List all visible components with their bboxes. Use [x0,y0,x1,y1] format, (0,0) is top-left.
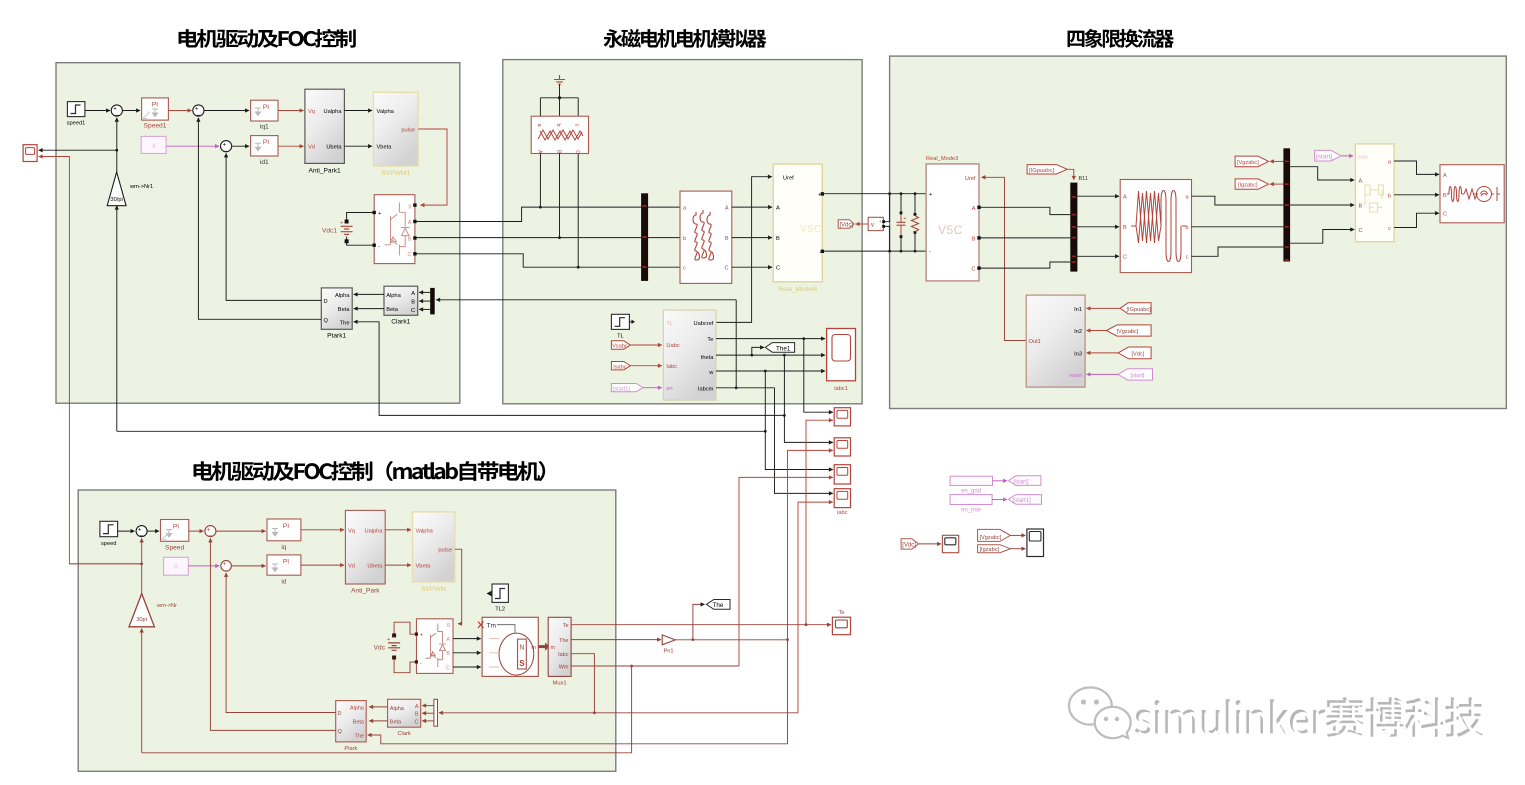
svg-text:B: B [446,651,450,657]
node Te branch [802,337,805,340]
wire Vsabc to motor Uabc [630,344,662,346]
svg-text:+: + [223,562,227,568]
node theta branch [750,354,753,357]
wire bar to inductor a [648,206,680,208]
svg-text:PI: PI [263,104,269,111]
svg-text:speed: speed [101,541,117,547]
mux demux1 (bus selector bar) [430,288,435,315]
wire Clark1 Beta to Plark1 Beta [354,308,384,310]
svg-text:30/pi: 30/pi [110,197,122,203]
capacitor DC link [897,192,907,252]
from tag start1 [611,384,643,393]
wire region4 w to scope s3 (red) [739,477,833,666]
PI controller Speed [161,520,189,552]
grid source block [1440,165,1504,223]
svg-text:Alpha: Alpha [335,293,350,299]
subsystem Anti_Park region4 [345,510,385,594]
goto tag start1 [1008,495,1041,505]
svg-text:C: C [446,665,450,671]
svg-text:[start]: [start] [1131,373,1145,379]
wire Plark D to sum6 feedback [226,573,336,713]
svg-text:PI: PI [283,523,289,530]
wire Mux1 Iabc down [571,654,594,713]
svg-text:+: + [138,527,142,533]
svg-text:Vd: Vd [348,564,355,570]
svg-text:A: A [408,220,412,226]
slider en_rise [950,495,992,514]
resistor DC link [912,192,919,252]
svg-text:Q: Q [324,318,329,324]
wire bar2 to Vgzabc [1270,160,1283,162]
step source speed1 [67,102,86,127]
goto tag The1 [765,343,794,353]
wire ground to source block [540,84,578,116]
svg-text:-: - [420,661,422,667]
svg-text:b: b [683,236,686,242]
wire Clark1 Alpha to Plark1 Alpha [354,293,384,295]
svg-text:A: A [411,291,415,297]
svg-text:Pn1: Pn1 [663,649,673,655]
svg-text:[start1]: [start1] [613,386,631,392]
wire VSC A to bar B11 [979,207,1070,214]
svg-text:The: The [340,320,350,326]
subsystem Out1 measurement [1026,295,1085,387]
sum junction sum4 [136,526,147,540]
svg-text:SVPWM1: SVPWM1 [381,170,410,177]
svg-text:Uref: Uref [783,176,794,182]
svg-text:Ualpha: Ualpha [323,109,342,115]
wire inductor B to VSC B [732,237,772,239]
svg-text:Anti_Park: Anti_Park [351,588,380,595]
wire Vdc2 to scope vdc [919,543,941,545]
wire w down to node w feedback [764,371,766,431]
wire start3 to breaker con [1341,155,1353,157]
battery Vdc1 [322,213,373,246]
wire theta4 down to The feedback line [368,640,788,744]
wire pulse to IGBT gate g (red) [418,129,447,205]
wire Plark1 D to sum3 feedback [226,153,321,300]
wire Mux1 The to Pn1 [571,639,661,641]
PMSM motor block region4 [478,617,538,676]
svg-text:con: con [1359,155,1368,161]
wire start2 to reset [1087,373,1119,375]
svg-text:+: + [420,633,423,639]
svg-text:[Igzabc]: [Igzabc] [980,547,1000,553]
wire breaker a to grid A [1394,161,1439,174]
svg-text:C: C [1359,228,1363,234]
wire en_grid to start tag [993,480,1008,482]
svg-text:A: A [446,637,450,643]
svg-text:PI: PI [283,559,289,566]
node Iabc feedback [593,711,596,714]
svg-text:pulse: pulse [401,128,415,134]
svg-text:[Vgzabc]: [Vgzabc] [980,535,1002,541]
svg-text:Real_Mode3: Real_Mode3 [926,156,958,162]
svg-text:[start]: [start] [1014,479,1029,485]
svg-text:speed1: speed1 [67,121,86,127]
goto tag start3 [1315,150,1342,161]
watermark text simulinker [1135,697,1486,740]
wire bar B11 to transformer A [1077,195,1119,197]
svg-text:A: A [415,704,419,710]
demux bar region4 [434,699,438,726]
voltage measurement block v1 [868,217,885,230]
PI controller iq [267,519,301,551]
svg-text:Te: Te [707,337,713,343]
svg-text:Ualpha: Ualpha [364,528,383,534]
wire motor m to Mux1 (thick) [538,645,546,648]
wire Uabcref up to VSC Uref [716,177,772,323]
wire region4 theta to scope s2 (red) [788,450,833,639]
from tag Vgzabc2 [978,529,1011,541]
svg-text:Te: Te [563,623,569,629]
wire Vgzabc3 to In2 [1087,330,1107,332]
wire Ualpha to SVPWM Valpha [385,529,411,531]
wire Pn1 branch up to The tag [693,604,705,639]
sum junction sum3 [221,141,232,155]
svg-text:Wm: Wm [559,664,569,670]
wire Clark Beta to Plark Beta [369,720,387,722]
from tag IGpuabc2 [1120,303,1151,314]
wire bridge B to motor B [453,652,481,654]
wire sum4 to PI Speed [147,530,159,532]
wire Mux1 Wm right [571,665,739,667]
subsystem Mux1 [548,617,571,686]
svg-text:Vq: Vq [308,109,315,115]
wire Igzabc2 to scope vg [1010,548,1025,550]
svg-text:Clark1: Clark1 [391,319,410,326]
svg-text:[start]: [start] [1316,153,1332,160]
from tag Vsabc [611,341,630,350]
svg-text:Out1: Out1 [1029,339,1041,345]
wire Ualpha to SVPWM1 Valpha [344,110,372,112]
svg-text:-: - [929,249,931,255]
wire Iabc feedback to demux4 [439,712,594,714]
wire Ubeta to SVPWM Vbeta [385,564,411,566]
wire IGBT C output to region2 [417,254,641,267]
wire Iabcm up to region1 feed [735,300,737,388]
svg-text:B: B [415,712,419,718]
svg-text:Valpha: Valpha [377,109,395,115]
svg-text:Uabc: Uabc [666,343,679,349]
scope s2 [834,438,850,456]
svg-text:Q: Q [338,729,343,735]
svg-text:0: 0 [174,565,177,571]
svg-text:Alpha: Alpha [390,706,405,712]
svg-text:[Vdc]: [Vdc] [902,543,916,549]
svg-text:b: b [1388,193,1391,199]
node Wm branch [630,665,633,668]
PI controller id1 [251,136,278,166]
goto tag IGpuabc [1027,165,1067,174]
wire id1 to Anti_Park1 Vd (red) [278,145,304,147]
wire Vdc3 to In3 [1087,352,1119,354]
wire Plark Q to sum5 feedback [210,538,335,730]
node ground bus [558,96,561,99]
subsystem PMSM simulator model [663,310,716,400]
wire VSC C to bar B11 [979,262,1070,268]
wire VSC + output rail to region3 [824,193,926,195]
svg-text:C: C [1443,212,1447,218]
wire VSC - output rail to region3 [824,250,926,252]
goto tag Igzabc [1235,179,1268,189]
wire IGpuabc tag to bar [1066,169,1074,180]
wire motor w to scope iabc1 [716,370,825,372]
node bus c [577,266,580,269]
mux bar2 grid measurement [1283,148,1290,261]
svg-text:Iabcm: Iabcm [698,387,714,393]
wire breaker c to grid C [1394,213,1439,227]
wire bar2 to breaker A [1290,167,1354,180]
wire bar B11 to transformer B [1077,226,1119,228]
PI controller id [267,555,301,586]
node Iabcm up branch [735,386,738,389]
svg-text:TL: TL [617,334,624,340]
wire Mux1 Te to scope Te (red) [571,624,831,626]
node w-gain junction [764,430,767,433]
sum junction sum1 [111,105,122,119]
svg-text:[IGpuabc]: [IGpuabc] [1029,168,1055,174]
svg-text:Te: Te [838,610,844,616]
transformer block three-phase [1120,180,1191,273]
svg-text:30pi: 30pi [136,617,147,623]
wire sum5 to PI iq [216,530,266,532]
watermark logo bubbles [1069,687,1131,738]
svg-text:In2: In2 [1074,329,1082,335]
svg-text:Vd: Vd [308,145,315,151]
svg-text:TL2: TL2 [495,606,505,612]
wire Wm down to feedback line [142,666,632,753]
wire node to sum1 (feedback up) [116,118,118,150]
subsystem VSC Real_Mode3 [926,156,981,281]
wire bar B11 to transformer C [1077,255,1119,257]
scope vdc [942,535,958,552]
wire bar2 to breaker C [1290,230,1354,244]
svg-text:m: m [551,645,556,651]
svg-text:Vq: Vq [348,528,355,534]
svg-text:+: + [879,219,882,224]
wire Speed to sum5 (dark red) [189,530,204,532]
wire demux to Clark A [422,705,434,707]
sum junction sum2 [193,105,204,119]
svg-text:B: B [411,300,415,306]
wire IGBT B output to region2 [417,237,641,239]
svg-text:+: + [387,637,390,643]
svg-text:Beta: Beta [390,719,402,725]
wire gain input from region2 w feedback [116,206,118,432]
wire Speed1 to sum2 (red) [168,110,191,112]
subsystem SVPWM region4 [413,512,455,593]
svg-text:Vbeta: Vbeta [416,564,432,570]
svg-text:+: + [195,107,199,113]
scope s1 [834,408,850,426]
node rail- at bridge [888,250,891,253]
wire transformer c to bar2 [1192,247,1284,256]
node rail+ at bridge [888,192,891,195]
svg-text:PI: PI [263,139,269,146]
svg-text:Speed1: Speed1 [144,123,167,130]
wire transformer a to bar2 [1192,196,1284,205]
wire transformer b to bar2 [1192,226,1284,228]
title: 永磁电机电机模拟器 [604,29,767,48]
wire theta branch to The1 [752,347,764,355]
svg-text:Vdc1: Vdc1 [322,228,337,235]
scope Te [832,610,850,635]
svg-text:[IGpuabc]: [IGpuabc] [1127,307,1152,313]
wire mux to Clark1 A [419,291,430,293]
svg-text:en: en [666,386,672,392]
wire Plark1 Q to sum2 feedback [198,118,321,319]
svg-text:The1: The1 [776,345,791,352]
svg-text:B: B [725,236,729,242]
svg-text:C: C [415,719,419,725]
svg-text:id1: id1 [260,159,269,166]
svg-text:c: c [683,266,686,272]
subsystem Clark1 [384,286,418,325]
wire Isabc to motor Iabc [630,365,662,367]
svg-text:S: S [519,659,525,668]
wire Clark Alpha to Plark Alpha [369,706,387,708]
svg-text:Beta: Beta [386,307,399,313]
subsystem Clark region4 [388,699,421,737]
svg-text:A: A [1123,195,1127,201]
wire v1 to goto Vdc [856,223,869,225]
subsystem SVPWM1 [373,92,418,177]
wire node to scope wm1 [39,149,117,151]
node Te scope branch [805,623,808,626]
svg-text:Anti_Park1: Anti_Park1 [308,168,341,175]
svg-text:+: + [207,527,211,533]
area region 3: four-quadrant converter [890,56,1507,408]
wire en_rise to start1 tag [992,499,1007,501]
svg-text:id: id [281,579,286,586]
wire iq to Anti_Park Vq [301,529,344,531]
wire bar to inductor b [648,237,680,239]
svg-text:wm->Nr1: wm->Nr1 [129,184,153,190]
svg-text:Ubeta: Ubeta [326,145,342,151]
constant block zero [164,557,189,575]
svg-text:Uabcref: Uabcref [693,321,713,327]
mux measurement bar region2 [641,193,648,281]
from tag Igzabc2 [978,545,1011,554]
svg-text:In1: In1 [1074,307,1082,313]
PI controller iq1 [251,100,278,130]
svg-text:A: A [725,206,729,212]
wire VSC B to bar B11 [979,237,1070,239]
svg-text:Speed: Speed [165,544,184,551]
svg-text:C: C [776,266,780,272]
svg-text:B: B [1443,193,1447,199]
subsystem VSC Real_Model4 [773,164,824,293]
wire sum6 to PI id [231,565,265,567]
title: 电机驱动及FOC控制（matlab自带电机） [194,461,546,481]
svg-text:Mux1: Mux1 [553,681,567,687]
wire theta feedback into Plark1 The [354,322,785,416]
node w branch [764,370,767,373]
svg-text:g: g [447,622,450,628]
svg-text:[Igzabc]: [Igzabc] [1238,183,1258,189]
wire bar2 to breaker B [1290,204,1354,206]
svg-text:Isabc: Isabc [613,364,627,370]
from tag Vgzabc3 [1106,325,1151,336]
svg-text:wm->Nr: wm->Nr [156,603,177,609]
subsystem Plark1 (Park transform) [321,288,352,340]
scope s3 [834,465,850,484]
wire inductor A to VSC A [732,206,772,208]
svg-text:v: v [871,223,874,229]
svg-text:iabc1: iabc1 [834,386,848,392]
node Pn1 out branch [692,638,695,641]
area region 2: PM motor simulator [503,60,862,404]
svg-text:+: + [223,142,227,148]
svg-text:Vbeta: Vbeta [377,145,393,151]
wire theta to scope2 [784,415,832,442]
svg-text:+: + [113,107,117,113]
wire source B down to bus b [559,154,561,238]
node wm1 [115,149,118,152]
wire mux to Clark1 B [419,300,430,302]
wire region4 Nr to scope wm1 (red) [39,157,142,564]
IGBT bridge converter (region1) [373,195,417,264]
subsystem Plark region4 [336,701,367,752]
wire motor theta to scope iabc1 [716,354,825,356]
svg-text:en_grid: en_grid [961,489,981,495]
slider en_grid [950,476,992,494]
inductor block (three-phase RL) [680,191,732,283]
svg-text:B: B [408,237,412,243]
wire start1 to motor en [643,387,662,389]
wire theta down to node The feedback [783,355,785,415]
svg-text:pulse: pulse [438,548,452,554]
node theta branch2 [783,354,786,357]
wire motor Te to scope iabc1 [716,338,825,340]
gain 30/pi (wm->Nr1) [107,172,153,206]
svg-text:V5C: V5C [938,223,963,237]
scope wm1 [23,145,37,162]
svg-text:en_rise: en_rise [961,508,981,514]
from tag Vdc2 [901,539,919,549]
wire region4 Te to scope s1 (red) [806,420,833,625]
gain Pn1 [662,635,675,655]
svg-text:Tm: Tm [487,623,496,630]
wire Pn1 output (theta elec) [675,639,787,641]
wire speed to sum4 [118,530,135,532]
wire speed1 to sum1 [85,110,110,112]
svg-text:Clark: Clark [397,731,410,737]
svg-text:Uref: Uref [965,176,976,182]
step source TL [611,314,635,339]
wire il to sum3 (magenta) [166,145,219,147]
svg-text:N: N [519,645,524,652]
svg-text:B: B [776,236,780,242]
svg-text:D: D [324,299,328,305]
wire inductor C to VSC C [732,266,772,268]
svg-text:Alpha: Alpha [350,705,365,711]
mux bar B11 [1070,183,1077,272]
svg-text:PI: PI [173,523,179,530]
svg-text:iabc: iabc [837,510,848,516]
wire Te down to scope column [804,339,833,413]
wire Iabcm feedback from region2 into mux [436,299,736,301]
wire Out1 to VSC Uref (dark red) [982,177,1027,340]
wire source C down to bus c [577,154,579,268]
svg-text:Valpha: Valpha [416,528,434,534]
svg-text:SVPWM: SVPWM [421,586,446,593]
sum junction sum5 [205,526,216,540]
svg-text:B: B [972,236,976,242]
svg-text:w: w [708,370,714,376]
goto tag The [706,600,730,610]
